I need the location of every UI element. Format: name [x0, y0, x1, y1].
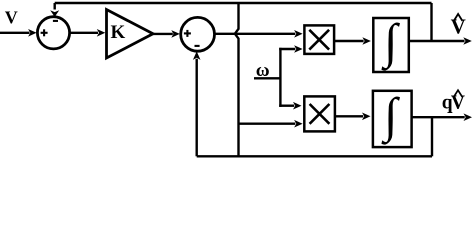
node omega label	[256, 60, 270, 81]
wire top feedback into summer 1 (minus)	[54, 3, 56, 10]
wire V input to summer 1	[0, 32, 30, 34]
wire V-hat branch to multiplier M2 lower input	[239, 122, 296, 124]
multiplier M1 box	[304, 25, 334, 54]
wire summer 1 to gain K	[70, 32, 98, 34]
node qV-hat output label	[442, 93, 465, 114]
integrator I2 box	[373, 88, 412, 148]
wire omega to multiplier M2 upper input	[279, 104, 294, 106]
wire gain K to summer 2	[153, 33, 173, 35]
gain K triangle	[107, 10, 154, 59]
integrator I1 box	[373, 14, 409, 73]
wire multiplier M1 to integrator I1	[334, 40, 363, 42]
svg-text:V: V	[451, 15, 466, 39]
wire qV-hat tap down	[431, 117, 433, 156]
wire omega stub	[254, 77, 280, 79]
wire integrator I1 output to V-hat arrow	[409, 40, 465, 42]
svg-text:V: V	[451, 93, 465, 114]
wire omega to multiplier M1 lower input	[279, 48, 295, 50]
svg-text:K: K	[111, 22, 126, 43]
wire V-hat tap up	[430, 3, 432, 41]
multiplier M2 box	[304, 96, 335, 131]
wire top feedback line	[55, 2, 432, 4]
wire qV feedback up into summer 2 (minus)	[195, 59, 197, 157]
node V-hat output label	[451, 15, 466, 39]
svg-text:V: V	[5, 8, 18, 28]
wire V-hat vertical with crossover hop	[235, 3, 239, 156]
wire integrator I2 output to qV-hat arrow	[412, 116, 465, 118]
wire bottom feedback line	[197, 155, 432, 157]
wire multiplier M2 to integrator I2	[335, 115, 363, 117]
node V input label	[5, 8, 18, 28]
wire summer 2 to multiplier M1	[215, 33, 296, 35]
summing junction S1	[37, 17, 69, 49]
wire omega vertical	[279, 48, 281, 107]
summing junction S2	[181, 17, 215, 51]
